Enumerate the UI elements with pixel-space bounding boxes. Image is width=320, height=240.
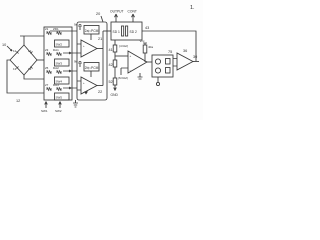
- svg-text:−: −: [130, 68, 132, 72]
- svg-text:36: 36: [183, 49, 187, 53]
- svg-text:2a▷PCM: 2a▷PCM: [85, 29, 99, 33]
- svg-text:SW5: SW5: [56, 96, 63, 100]
- svg-text:14: 14: [28, 67, 32, 71]
- svg-text:30: 30: [193, 55, 197, 59]
- svg-text:SW2: SW2: [55, 109, 62, 113]
- svg-text:(4 Ref): (4 Ref): [119, 44, 128, 48]
- svg-text:21: 21: [98, 37, 102, 41]
- svg-text:SW3: SW3: [56, 62, 63, 66]
- svg-text:OUTPUT: OUTPUT: [110, 10, 124, 14]
- svg-text:9a: 9a: [74, 23, 78, 27]
- svg-text:DA1: DA1: [53, 48, 59, 52]
- svg-text:SD 2: SD 2: [130, 30, 137, 34]
- svg-text:DA3: DA3: [53, 83, 59, 87]
- svg-text:27: 27: [45, 83, 49, 87]
- svg-text:52: 52: [109, 80, 113, 84]
- svg-text:9b: 9b: [74, 60, 78, 64]
- svg-text:SW1: SW1: [41, 109, 48, 113]
- svg-text:1.: 1.: [190, 5, 195, 11]
- svg-text:(M Ref): (M Ref): [118, 76, 128, 80]
- svg-text:42: 42: [109, 63, 113, 67]
- svg-text:12: 12: [16, 99, 20, 103]
- svg-text:Vcc: Vcc: [140, 39, 146, 43]
- svg-text:SD 1: SD 1: [113, 30, 120, 34]
- svg-text:43: 43: [145, 26, 149, 30]
- svg-text:+: +: [130, 54, 132, 58]
- svg-text:10: 10: [2, 43, 6, 47]
- svg-text:13: 13: [13, 67, 17, 71]
- svg-text:41: 41: [109, 48, 113, 52]
- svg-text:12: 12: [28, 49, 32, 53]
- svg-text:20: 20: [96, 12, 100, 16]
- svg-text:ZD1: ZD1: [53, 27, 59, 31]
- svg-text:40a: 40a: [148, 45, 153, 49]
- svg-text:CONT: CONT: [128, 10, 137, 14]
- svg-text:23: 23: [45, 48, 49, 52]
- svg-text:25: 25: [45, 66, 49, 70]
- svg-text:21: 21: [45, 27, 49, 31]
- svg-text:SW2: SW2: [56, 43, 63, 47]
- svg-text:22: 22: [98, 90, 102, 94]
- svg-text:GND: GND: [111, 93, 119, 97]
- svg-text:75: 75: [168, 50, 172, 54]
- svg-text:11: 11: [13, 49, 16, 53]
- svg-text:SW4: SW4: [56, 80, 63, 84]
- svg-text:2b▷PCM: 2b▷PCM: [85, 66, 99, 70]
- svg-text:DA2: DA2: [53, 66, 59, 70]
